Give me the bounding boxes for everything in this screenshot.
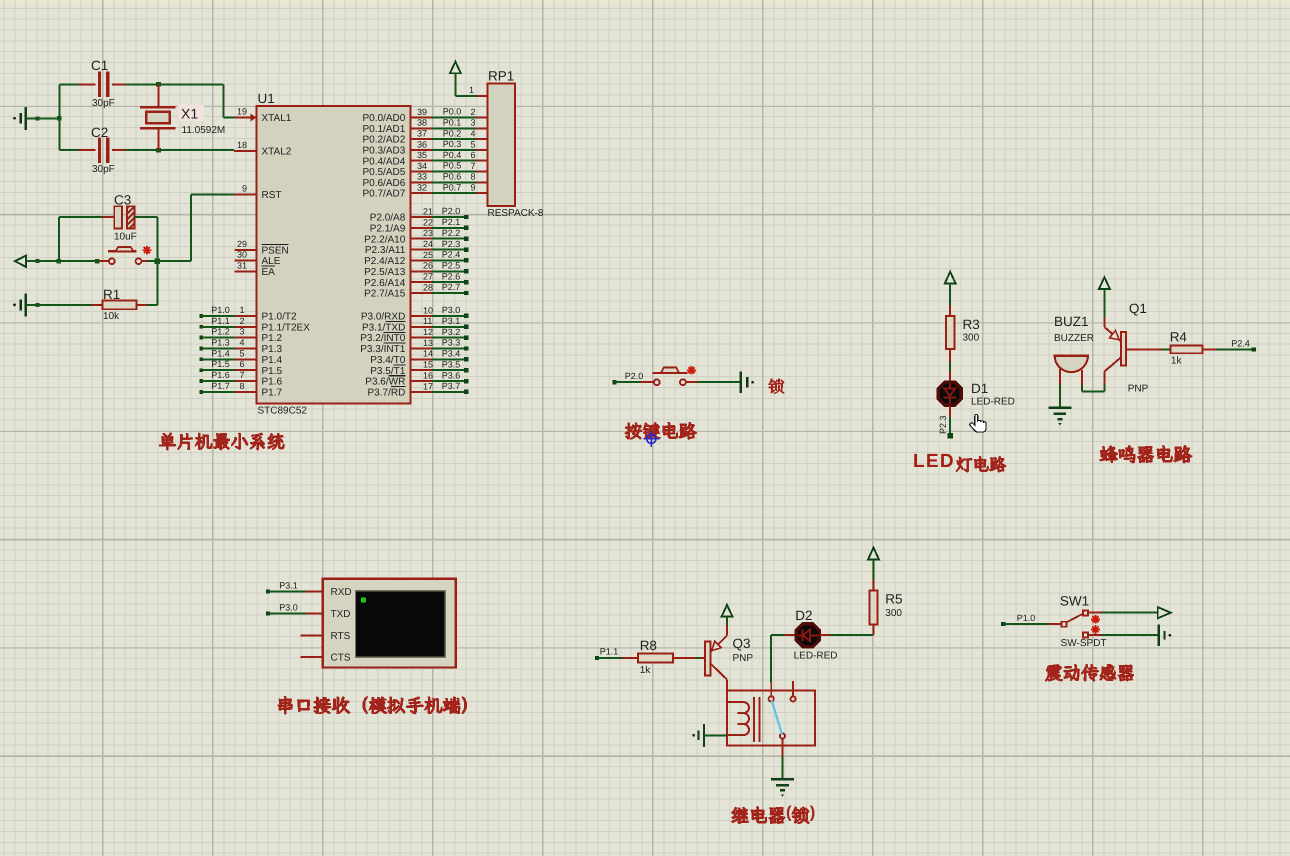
svg-text:BUZ1: BUZ1 [1054, 314, 1089, 329]
pin P2.1/A9 (22) [370, 217, 469, 234]
pin P2.2/A10 (23) [364, 228, 468, 245]
svg-text:8: 8 [471, 172, 476, 182]
svg-text:P3.0: P3.0 [279, 602, 298, 612]
svg-text:R1: R1 [103, 287, 120, 302]
svg-text:P0.5/AD5: P0.5/AD5 [362, 167, 405, 178]
switch SW1 (SW-SPDT) [1048, 611, 1102, 638]
svg-text:P2.2: P2.2 [442, 228, 461, 238]
svg-text:2: 2 [239, 316, 244, 326]
svg-text:P2.0: P2.0 [625, 371, 644, 381]
svg-text:P2.0/A8: P2.0/A8 [370, 213, 406, 224]
pin RTS [301, 631, 351, 642]
pin P1.3 (4) [199, 337, 282, 355]
svg-text:D2: D2 [795, 608, 812, 623]
svg-text:P3.5: P3.5 [442, 359, 461, 369]
power arrow VCC [1099, 277, 1110, 289]
svg-text:6: 6 [239, 359, 244, 369]
pin P1.6 (7) [199, 370, 282, 388]
svg-text:P1.1: P1.1 [600, 646, 619, 656]
svg-text:P0.6: P0.6 [443, 172, 462, 182]
svg-text:P2.1: P2.1 [442, 217, 461, 227]
svg-text:P2.2/A10: P2.2/A10 [364, 234, 406, 245]
svg-text:7: 7 [239, 370, 244, 380]
svg-text:10uF: 10uF [114, 232, 137, 243]
svg-text:10k: 10k [103, 311, 120, 322]
wire [949, 283, 951, 305]
actuator dot [687, 366, 696, 375]
svg-text:36: 36 [417, 139, 427, 149]
wire [141, 259, 191, 264]
svg-text:15: 15 [423, 360, 433, 370]
svg-text:P1.0: P1.0 [1017, 613, 1036, 623]
pin P2.6/A14 (27) [364, 271, 468, 288]
power arrow VCC [868, 548, 879, 580]
svg-text:SW-SPDT: SW-SPDT [1061, 638, 1107, 649]
svg-text:P3.1: P3.1 [279, 580, 298, 590]
svg-text:P2.3: P2.3 [442, 239, 461, 249]
svg-text:P0.0/AD0: P0.0/AD0 [362, 113, 405, 124]
svg-text:PNP: PNP [1128, 383, 1149, 394]
svg-text:P0.3/AD3: P0.3/AD3 [362, 146, 405, 157]
svg-text:P0.5: P0.5 [443, 161, 462, 171]
svg-text:P1.7: P1.7 [262, 388, 283, 399]
svg-text:P0.7/AD7: P0.7/AD7 [362, 189, 405, 200]
svg-text:P2.7/A15: P2.7/A15 [364, 289, 406, 300]
svg-text:R8: R8 [640, 638, 657, 653]
svg-text:19: 19 [237, 107, 247, 117]
wire + arrow [1102, 607, 1171, 618]
svg-text:P0.1/AD1: P0.1/AD1 [362, 124, 405, 135]
pin XTAL2 (18) [234, 140, 292, 158]
svg-text:P2.4: P2.4 [442, 250, 461, 260]
svg-text:P0.7: P0.7 [443, 182, 462, 192]
svg-text:P1.4: P1.4 [211, 348, 230, 358]
svg-text:1: 1 [469, 85, 474, 95]
wire [1003, 623, 1048, 625]
wire from D2 down to contact [770, 635, 772, 683]
button KEY [652, 367, 687, 385]
svg-text:P1.2: P1.2 [211, 327, 230, 337]
wire [26, 259, 109, 264]
svg-text:P2.3: P2.3 [938, 415, 948, 434]
wire [1103, 289, 1105, 317]
svg-text:XTAL2: XTAL2 [262, 147, 292, 158]
svg-text:14: 14 [423, 349, 433, 359]
ground terminal G2 [13, 293, 26, 316]
svg-text:LED: LED [913, 451, 955, 472]
wire to ground [1059, 385, 1061, 408]
svg-text:21: 21 [423, 206, 433, 216]
svg-text:CTS: CTS [331, 653, 351, 664]
terminal P1.1 [595, 646, 618, 660]
svg-text:P3.7/RD: P3.7/RD [368, 388, 406, 399]
wire [126, 82, 224, 87]
label 锁 [768, 378, 784, 394]
pin ALE (30) [234, 250, 280, 268]
svg-text:P3.6: P3.6 [442, 370, 461, 380]
resistor R3 [946, 305, 955, 362]
svg-text:P3.6/WR: P3.6/WR [365, 377, 405, 388]
wire [696, 657, 700, 659]
pin P3.2/INT0 (12) [360, 327, 468, 344]
caption 蜂鸣器电路 [1099, 445, 1192, 464]
wire [26, 116, 62, 121]
svg-text:P3.2: P3.2 [442, 327, 461, 337]
svg-text:25: 25 [423, 250, 433, 260]
caption 串口接收（模拟手机端） [278, 696, 467, 715]
caption 震动传感器 [1045, 664, 1134, 682]
wire [147, 304, 158, 306]
svg-text:33: 33 [417, 172, 427, 182]
svg-text:X1: X1 [181, 106, 198, 122]
pin P1.7 (8) [199, 381, 282, 399]
svg-text:C2: C2 [91, 125, 108, 140]
resistor R5 [869, 579, 877, 635]
relay arm (cyan) [772, 701, 782, 734]
svg-text:3: 3 [239, 327, 244, 337]
svg-text:P3.7: P3.7 [442, 381, 461, 391]
svg-text:38: 38 [417, 118, 427, 128]
pin P0.4/AD4 (35) + wire to RP1 [362, 150, 487, 167]
svg-text:10: 10 [423, 305, 433, 315]
pin P3.1/TXD (11) [362, 316, 469, 333]
pin P2.0/A8 (21) [370, 206, 469, 223]
terminal P1.0 [1001, 613, 1035, 626]
ground terminal [692, 724, 704, 747]
svg-text:EA: EA [262, 267, 276, 278]
svg-text:RST: RST [262, 190, 282, 201]
svg-text:P2.4: P2.4 [1231, 339, 1250, 349]
pin P0.3/AD3 (36) + wire to RP1 [362, 139, 487, 156]
svg-text:P1.2: P1.2 [262, 333, 283, 344]
label X1 [178, 105, 204, 122]
wire [949, 362, 951, 372]
svg-text:P0.4: P0.4 [443, 150, 462, 160]
svg-text:P2.5: P2.5 [442, 261, 461, 271]
mouse cursor [970, 414, 986, 432]
svg-text:(: ( [786, 804, 792, 822]
svg-text:PSEN: PSEN [262, 245, 289, 256]
svg-text:P1.3: P1.3 [211, 337, 230, 347]
svg-text:1k: 1k [640, 665, 652, 676]
pin P3.0/RXD (10) [361, 305, 469, 322]
LED D1 [938, 372, 961, 418]
svg-text:29: 29 [237, 239, 247, 249]
svg-text:37: 37 [417, 129, 427, 139]
capacitor C2 [79, 138, 126, 163]
wire [1082, 385, 1104, 392]
svg-text:R4: R4 [1170, 330, 1188, 345]
svg-text:P1.5: P1.5 [262, 366, 283, 377]
ground [1048, 408, 1071, 426]
svg-text:8: 8 [239, 381, 244, 391]
svg-text:5: 5 [471, 139, 476, 149]
pin CTS [301, 653, 351, 664]
svg-text:4: 4 [239, 337, 244, 347]
svg-text:13: 13 [423, 338, 433, 348]
wire [948, 417, 953, 439]
actuator dots [1091, 615, 1100, 634]
svg-text:P0.1: P0.1 [443, 118, 462, 128]
svg-text:Q3: Q3 [733, 636, 751, 651]
wire to ground [782, 757, 784, 778]
pin P1.2 (3) [199, 327, 282, 345]
svg-text:PNP: PNP [733, 653, 754, 664]
svg-text:LED-RED: LED-RED [794, 651, 838, 662]
svg-text:22: 22 [423, 217, 433, 227]
svg-text:1: 1 [239, 305, 244, 315]
svg-text:27: 27 [423, 272, 433, 282]
svg-text:P1.5: P1.5 [211, 359, 230, 369]
wire [704, 734, 727, 736]
relay coil [728, 697, 759, 742]
svg-text:TXD: TXD [331, 609, 351, 620]
svg-text:LED-RED: LED-RED [971, 397, 1015, 408]
svg-text:31: 31 [237, 260, 247, 270]
resistor R8 [622, 653, 696, 662]
svg-text:P0.0: P0.0 [443, 107, 462, 117]
svg-text:9: 9 [471, 183, 476, 193]
svg-text:26: 26 [423, 261, 433, 271]
transistor Q1 (PNP) [1104, 317, 1161, 385]
LED D2 [771, 624, 830, 647]
pin EA (31) [234, 260, 275, 278]
svg-text:300: 300 [885, 608, 902, 619]
relay contacts [769, 681, 796, 757]
pin P0.0/AD0 (39) + wire to RP1 [362, 107, 487, 124]
caption 继电器(锁) [731, 804, 815, 824]
caption LED灯电路 [913, 451, 1006, 473]
pin P2.3/A11 (24) [365, 239, 469, 256]
svg-text:P0.2/AD2: P0.2/AD2 [362, 135, 405, 146]
svg-text:11.0592M: 11.0592M [182, 125, 226, 136]
ground terminal G1 [13, 107, 26, 130]
ground terminal [741, 371, 754, 393]
svg-text:P3.1: P3.1 [442, 316, 461, 326]
svg-text:P2.1/A9: P2.1/A9 [370, 223, 406, 234]
wire [615, 381, 654, 383]
pin P1.5 (6) [199, 359, 282, 377]
wire [59, 84, 78, 150]
svg-text:SW1: SW1 [1060, 594, 1089, 609]
svg-text:18: 18 [237, 140, 247, 150]
svg-text:P2.6/A14: P2.6/A14 [364, 278, 406, 289]
pin P0.6/AD6 (33) + wire to RP1 [362, 172, 487, 189]
transistor Q3 (PNP) [700, 625, 727, 691]
svg-text:P2.3/A11: P2.3/A11 [365, 245, 406, 256]
svg-text:): ) [810, 804, 816, 822]
pin P0.2/AD2 (37) + wire to RP1 [362, 128, 487, 145]
svg-text:P3.4/T0: P3.4/T0 [370, 355, 405, 366]
svg-text:11: 11 [423, 316, 432, 326]
pin P3.3/INT1 (13) [360, 338, 468, 355]
caption 单片机最小系统 [159, 432, 285, 450]
capacitor C3 [103, 206, 147, 228]
svg-text:P3.0/RXD: P3.0/RXD [361, 312, 405, 323]
pin P3.4/T0 (14) [370, 349, 468, 366]
pin P2.5/A13 (26) [364, 261, 468, 278]
wire [686, 381, 740, 383]
svg-text:P2.7: P2.7 [442, 282, 461, 292]
svg-text:P3.4: P3.4 [442, 349, 461, 359]
svg-text:C3: C3 [114, 193, 131, 208]
svg-text:P1.0: P1.0 [211, 305, 230, 315]
power arrow VCC [450, 62, 461, 74]
svg-text:35: 35 [417, 150, 427, 160]
svg-text:5: 5 [239, 348, 244, 358]
terminal P2.0 [612, 380, 616, 384]
svg-text:STC89C52: STC89C52 [258, 406, 308, 417]
ground arrow [15, 256, 26, 267]
pin P0.5/AD5 (34) + wire to RP1 [362, 161, 487, 178]
actuator dot [143, 246, 152, 255]
svg-text:1k: 1k [1171, 355, 1183, 366]
svg-text:RP1: RP1 [488, 69, 514, 84]
svg-text:P0.6/AD6: P0.6/AD6 [362, 178, 405, 189]
pin RST (9) [234, 183, 281, 201]
svg-text:P3.0: P3.0 [442, 305, 461, 315]
svg-text:12: 12 [423, 327, 433, 337]
wire [830, 634, 873, 636]
svg-text:23: 23 [423, 228, 433, 238]
svg-text:P1.4: P1.4 [262, 355, 283, 366]
wire + pin 1 [455, 73, 487, 96]
svg-text:P1.6: P1.6 [211, 370, 230, 380]
wire [59, 217, 103, 261]
op-amp U1 body (STC89C52 MCU) [257, 106, 411, 404]
svg-text:R3: R3 [963, 317, 980, 332]
buzzer BUZ1 [1054, 355, 1089, 384]
svg-text:P3.1/TXD: P3.1/TXD [362, 322, 405, 333]
wire [126, 148, 234, 153]
capacitor C1 [79, 72, 126, 97]
svg-text:P3.2/INT0: P3.2/INT0 [360, 333, 405, 344]
wire XTAL1 [223, 84, 234, 117]
power arrow VCC [945, 272, 956, 284]
svg-text:XTAL1: XTAL1 [262, 113, 292, 124]
pin P0.1/AD1 (38) + wire to RP1 [362, 118, 487, 135]
pin P1.4 (5) [199, 348, 282, 366]
pin P3.7/RD (17) [368, 381, 469, 398]
svg-text:P1.0/T2: P1.0/T2 [262, 312, 297, 323]
svg-text:P3.3/INT1: P3.3/INT1 [360, 344, 405, 355]
svg-text:P3.5/T1: P3.5/T1 [370, 366, 405, 377]
pin P3.5/T1 (15) [370, 359, 468, 376]
svg-text:Q1: Q1 [1129, 301, 1147, 316]
svg-text:4: 4 [471, 129, 476, 139]
wire [135, 217, 158, 305]
pin P2.4/A12 (25) [364, 250, 468, 267]
svg-text:6: 6 [471, 150, 476, 160]
pin P1.0 (1) [199, 305, 297, 323]
terminal P3.0 + wire [266, 602, 306, 615]
wire RST [191, 194, 234, 261]
ground [771, 779, 794, 797]
svg-text:P0.3: P0.3 [443, 139, 462, 149]
resistor R1 [91, 301, 146, 310]
svg-text:RTS: RTS [331, 631, 351, 642]
svg-text:P0.2: P0.2 [443, 128, 462, 138]
virtual terminal box [323, 579, 456, 668]
svg-text:P2.6: P2.6 [442, 271, 461, 281]
svg-text:P1.3: P1.3 [262, 344, 283, 355]
crystal X1 [140, 84, 175, 150]
svg-text:17: 17 [423, 381, 433, 391]
pin RXD [306, 587, 352, 598]
svg-text:C1: C1 [91, 58, 108, 73]
svg-text:P1.6: P1.6 [262, 377, 283, 388]
terminal P3.1 + wire [266, 580, 306, 593]
svg-text:7: 7 [471, 161, 476, 171]
svg-text:9: 9 [242, 183, 247, 193]
wire [597, 657, 622, 659]
resistor R4 [1162, 346, 1217, 354]
svg-text:P2.4/A12: P2.4/A12 [364, 256, 406, 267]
svg-text:16: 16 [423, 370, 433, 380]
resistor pack RP1 [488, 84, 516, 206]
pin PSEN (29) [234, 239, 288, 257]
svg-text:39: 39 [417, 107, 427, 117]
svg-text:D1: D1 [971, 381, 988, 396]
pin P3.6/WR (16) [365, 370, 468, 387]
wire [26, 303, 92, 307]
wire + ground terminal [1102, 624, 1172, 646]
svg-text:RESPACK-8: RESPACK-8 [488, 208, 544, 219]
svg-text:U1: U1 [258, 91, 275, 106]
svg-text:P2.5/A13: P2.5/A13 [364, 267, 406, 278]
caption 按键电路 [625, 422, 698, 440]
svg-text:P1.1: P1.1 [211, 316, 230, 326]
svg-text:2: 2 [471, 107, 476, 117]
pin P1.1 (2) [199, 316, 310, 334]
pin P2.7/A15 (28) [364, 282, 468, 299]
pin P0.7/AD7 (32) + wire to RP1 [362, 182, 487, 199]
origin marker [643, 431, 659, 447]
svg-text:P2.0: P2.0 [442, 206, 461, 216]
pin XTAL1 (19) [234, 107, 291, 125]
svg-text:3: 3 [471, 118, 476, 128]
svg-text:RXD: RXD [331, 587, 352, 598]
wire + terminal P2.4 [1216, 347, 1255, 351]
power arrow VCC [722, 605, 733, 625]
svg-text:300: 300 [963, 333, 980, 344]
svg-text:BUZZER: BUZZER [1054, 333, 1094, 344]
svg-text:30pF: 30pF [92, 98, 115, 109]
svg-text:24: 24 [423, 239, 433, 249]
svg-text:34: 34 [417, 161, 427, 171]
svg-text:R5: R5 [885, 592, 902, 607]
svg-text:P1.7: P1.7 [211, 381, 230, 391]
svg-text:P0.4/AD4: P0.4/AD4 [362, 156, 405, 167]
svg-text:P1.1/T2EX: P1.1/T2EX [262, 322, 311, 333]
svg-text:30pF: 30pF [92, 164, 115, 175]
pin TXD [306, 609, 350, 620]
button RESET [108, 247, 141, 264]
svg-text:P3.3: P3.3 [442, 338, 461, 348]
svg-text:28: 28 [423, 282, 433, 292]
svg-text:32: 32 [417, 183, 427, 193]
relay RL box [727, 691, 815, 746]
svg-text:30: 30 [237, 250, 247, 260]
